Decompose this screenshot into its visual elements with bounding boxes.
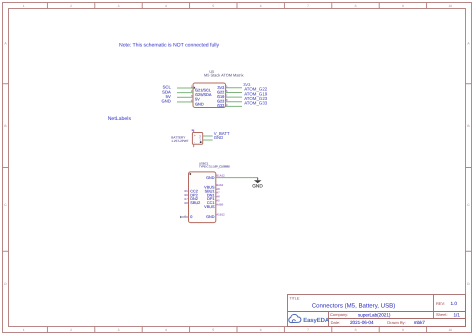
svg-text:SBU2: SBU2 (190, 201, 200, 205)
svg-text:GND: GND (161, 99, 170, 104)
svg-text:+: + (194, 133, 196, 137)
wire SDA (177, 92, 193, 94)
svg-text:1.0: 1.0 (451, 301, 458, 306)
svg-text:3: 3 (118, 328, 120, 332)
BATTERY tab top (193, 130, 195, 133)
svg-text:-: - (194, 140, 195, 144)
svg-text:9: 9 (402, 4, 404, 8)
svg-text:ATOM_G33: ATOM_G33 (244, 101, 268, 106)
wire GND left of U5 (177, 101, 193, 103)
svg-text:5: 5 (212, 4, 214, 8)
svg-text:Note: This schematic is NOT co: Note: This schematic is NOT connected fu… (119, 43, 220, 49)
svg-text:Date:: Date: (331, 320, 341, 325)
svg-text:1.25T-2PWT: 1.25T-2PWT (171, 139, 188, 143)
svg-text:Company:: Company: (330, 312, 348, 317)
U5 body (193, 83, 226, 108)
svg-text:M5 Stack ATOM Matrix: M5 Stack ATOM Matrix (204, 73, 244, 78)
mouse cursor arrow (194, 86, 196, 89)
wire SCL (177, 87, 193, 89)
svg-text:GND: GND (214, 135, 224, 140)
svg-text:1/1: 1/1 (454, 312, 461, 317)
BATTERY tab bottom (193, 144, 195, 147)
svg-text:0: 0 (190, 215, 192, 219)
svg-text:Sheet:: Sheet: (436, 312, 448, 317)
svg-text:2021-06-04: 2021-06-04 (350, 320, 374, 325)
EasyEDA logo (289, 314, 330, 324)
USBC1 body (189, 172, 216, 223)
svg-text:REV:: REV: (436, 301, 445, 306)
svg-text:7: 7 (307, 328, 309, 332)
svg-text:B8: B8 (184, 201, 188, 205)
wire ATOM_G19 (226, 96, 242, 98)
U5 right pin numbers (226, 84, 228, 107)
svg-text:mbk7: mbk7 (414, 320, 426, 325)
svg-text:2: 2 (70, 4, 72, 8)
wire ATOM_G22 (226, 91, 242, 93)
svg-text:2: 2 (70, 328, 72, 332)
svg-text:10: 10 (448, 328, 452, 332)
svg-text:superLab(2021): superLab(2021) (358, 312, 391, 317)
wire USB GND to ground (216, 177, 258, 179)
BATTERY corner dot (200, 141, 202, 143)
op U5: M5 Stack ATOM Matrix connector (191, 70, 244, 108)
wire ATOM_G23 (226, 101, 242, 103)
ground symbol GND (252, 178, 263, 189)
svg-text:GND: GND (252, 184, 263, 189)
svg-text:1: 1 (23, 328, 25, 332)
title block (288, 295, 466, 327)
svg-text:4: 4 (165, 4, 167, 8)
svg-text:6: 6 (260, 4, 262, 8)
svg-text:1: 1 (23, 4, 25, 8)
svg-text:9: 9 (402, 328, 404, 332)
wire shield stub (180, 216, 188, 218)
svg-text:EasyEDA: EasyEDA (303, 317, 330, 324)
wire 5V (177, 96, 193, 98)
svg-text:4: 4 (165, 328, 167, 332)
svg-text:Drawn By:: Drawn By: (387, 320, 405, 325)
svg-text:NetLabels: NetLabels (108, 116, 132, 122)
svg-text:8: 8 (355, 328, 357, 332)
svg-text:GND: GND (195, 101, 204, 106)
svg-text:TYPE-C 3.1 16P_C168688: TYPE-C 3.1 16P_C168688 (199, 164, 230, 168)
svg-text:A4B9: A4B9 (216, 202, 223, 206)
svg-text:TITLE:: TITLE: (290, 296, 301, 300)
wire GND battery (203, 139, 213, 141)
svg-text:5: 5 (212, 328, 214, 332)
svg-text:GND: GND (206, 176, 215, 180)
wire ATOM_G33 (226, 105, 242, 107)
USBC1 corner dot (189, 173, 191, 175)
svg-text:6: 6 (260, 328, 262, 332)
wire 3V3 (226, 87, 242, 89)
shield wire end tick (180, 216, 182, 218)
battery connector BATTERY (171, 130, 202, 148)
svg-text:7: 7 (307, 4, 309, 8)
svg-text:G33: G33 (217, 103, 224, 108)
svg-text:VBUS: VBUS (204, 205, 215, 209)
svg-text:GND: GND (206, 215, 215, 219)
svg-text:A1B12: A1B12 (216, 212, 225, 216)
BATTERY body (192, 133, 202, 145)
BATTERY tab pin number (192, 130, 193, 131)
wire V_BATT (203, 135, 213, 137)
svg-text:Connectors (M5, Battery, USB): Connectors (M5, Battery, USB) (312, 302, 396, 309)
USB-C connector USBC1 (184, 161, 230, 222)
svg-text:3: 3 (118, 4, 120, 8)
svg-text:B1A12: B1A12 (216, 173, 225, 177)
svg-text:10: 10 (448, 4, 452, 8)
svg-text:8: 8 (355, 4, 357, 8)
U5 left pin numbers (191, 85, 193, 103)
